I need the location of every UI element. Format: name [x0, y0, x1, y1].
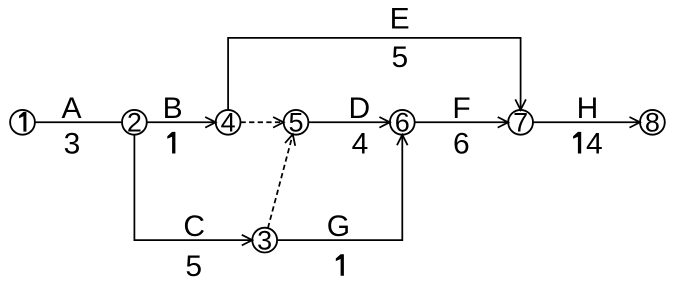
svg-text:3: 3: [257, 225, 272, 255]
svg-text:6: 6: [453, 128, 470, 161]
svg-text:5: 5: [391, 41, 408, 74]
svg-text:3: 3: [64, 128, 81, 161]
svg-text:A: A: [61, 92, 81, 125]
svg-text:C: C: [183, 210, 205, 243]
svg-text:D: D: [348, 92, 370, 125]
svg-text:F: F: [452, 92, 470, 125]
svg-text:B: B: [163, 92, 183, 125]
svg-text:5: 5: [185, 250, 202, 283]
svg-text:4: 4: [352, 128, 369, 161]
svg-text:4: 4: [586, 128, 603, 161]
svg-text:E: E: [390, 3, 410, 36]
svg-text:G: G: [327, 210, 350, 243]
svg-text:6: 6: [395, 108, 410, 138]
svg-text:7: 7: [513, 108, 528, 138]
svg-text:5: 5: [288, 108, 303, 138]
svg-text:H: H: [577, 92, 599, 125]
svg-text:4: 4: [221, 108, 236, 138]
svg-text:2: 2: [127, 108, 142, 138]
svg-text:8: 8: [645, 108, 660, 138]
